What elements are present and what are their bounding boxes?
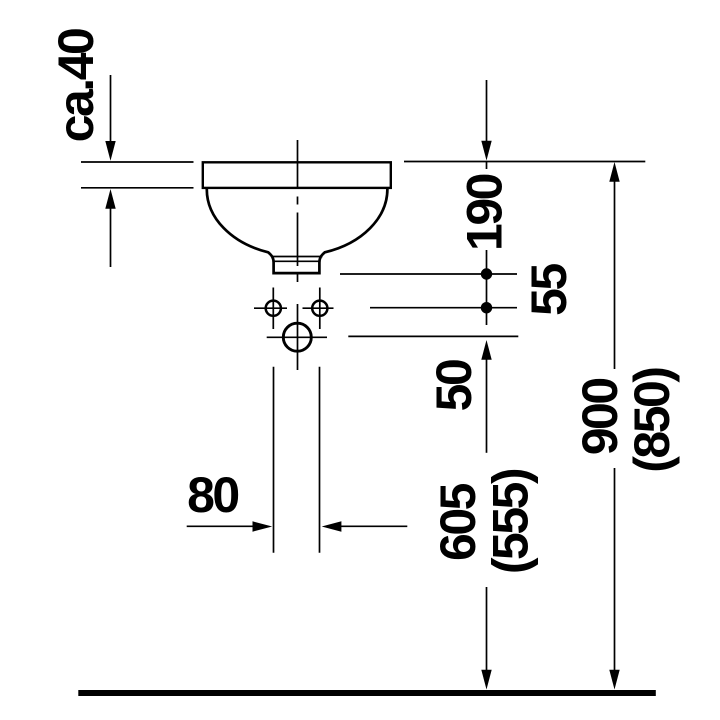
80 dimension right leader with left arrow — [339, 525, 407, 527]
faucet hole left circle — [266, 301, 281, 316]
extension line at faucet level (upper) — [340, 273, 517, 275]
dimension terminator dot upper — [481, 268, 492, 279]
extension line at drain level (lower) — [348, 335, 518, 337]
dimension terminator dot lower — [481, 302, 492, 313]
svg-text:80: 80 — [187, 467, 238, 523]
faucet hole right crosshair — [303, 288, 334, 330]
drain hole circle — [283, 323, 311, 351]
605 lower leader with down arrow to floor — [486, 587, 488, 672]
ca.40 dimension upper leader with down arrow — [110, 75, 112, 144]
floor line — [78, 690, 656, 696]
faucet hole right circle — [312, 301, 327, 316]
basin rim — [203, 162, 391, 188]
900 lower leader with down arrow to floor — [614, 468, 616, 672]
svg-text:(850): (850) — [624, 368, 680, 473]
ca.40 extension line top — [81, 161, 194, 163]
svg-text:605: 605 — [430, 483, 486, 561]
drain overflow line upper — [271, 256, 322, 258]
190 dimension upper leader with down arrow — [486, 80, 488, 144]
50/605 leader with up arrow — [481, 340, 491, 360]
drain overflow line lower — [275, 260, 321, 262]
900 dimension upper leader with up arrow — [609, 162, 619, 182]
top dimension line at rim level — [404, 161, 645, 163]
80 dimension left leader with right arrow — [187, 525, 255, 527]
svg-text:190: 190 — [456, 174, 512, 251]
svg-text:900: 900 — [572, 379, 628, 456]
svg-text:ca.40: ca.40 — [48, 29, 104, 142]
centerline (dash-dot vertical axis) — [297, 140, 299, 370]
190/55 dimension line through dots — [486, 250, 488, 325]
faucet hole left crosshair — [254, 288, 287, 330]
drain pipe left line — [273, 367, 275, 553]
drain pipe right line — [319, 367, 321, 553]
basin bowl with drain funnel — [207, 189, 388, 273]
svg-text:55: 55 — [521, 264, 577, 316]
svg-text:50: 50 — [426, 360, 482, 411]
svg-text:(555): (555) — [482, 469, 538, 574]
extension line at faucet hole level (middle) — [370, 307, 517, 309]
ca.40 dimension lower leader with up arrow — [110, 206, 112, 267]
drain hole crosshair horizontal — [267, 336, 327, 338]
ca.40 extension line bottom — [81, 187, 194, 189]
190 leader stub below line — [486, 162, 488, 169]
